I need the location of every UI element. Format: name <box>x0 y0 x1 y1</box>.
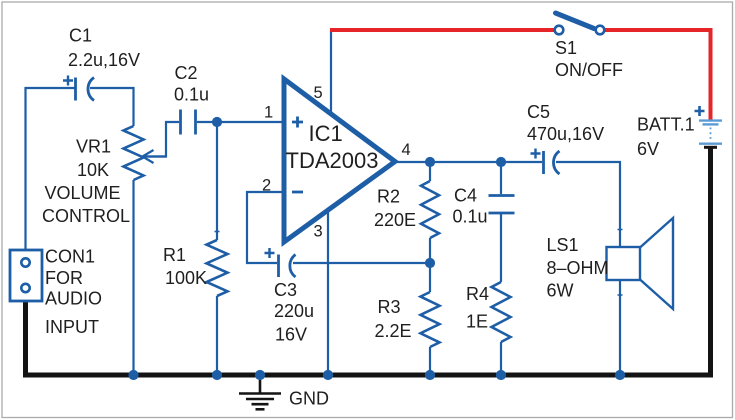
wire positive supply rail (red) switch to battery <box>605 30 711 120</box>
svg-text:GND: GND <box>289 389 329 409</box>
node output/C4 junction <box>496 157 506 167</box>
svg-text:CONTROL: CONTROL <box>42 206 130 226</box>
node VR1 ground junction <box>128 370 138 380</box>
wire C4 bottom to R4 top <box>500 214 502 282</box>
node R2/R3/C3 junction <box>425 258 435 268</box>
resistor R2 <box>421 181 439 238</box>
wire R1 top lead <box>216 122 218 240</box>
wire R4 bottom lead to ground rail <box>500 342 502 375</box>
svg-text:C5: C5 <box>527 102 550 122</box>
svg-text:1: 1 <box>264 104 273 122</box>
svg-text:TDA2003: TDA2003 <box>286 148 379 173</box>
svg-text:4: 4 <box>402 141 411 159</box>
svg-text:0.1u: 0.1u <box>453 207 488 227</box>
wire speaker bottom to ground rail <box>619 280 621 375</box>
svg-text:220u: 220u <box>274 301 314 321</box>
capacitor C2 <box>181 110 196 135</box>
wire R2 top lead <box>429 162 431 181</box>
wire pin 2 to C3 left plate <box>247 192 283 263</box>
speaker LS1 <box>607 218 674 309</box>
pin tick R1 <box>215 231 220 233</box>
svg-text:R4: R4 <box>466 284 489 304</box>
node R1 ground junction <box>212 370 222 380</box>
wire C1 left plate to CON1 top <box>26 88 75 250</box>
svg-text:IC1: IC1 <box>309 121 343 146</box>
wire R3 top lead <box>429 263 431 292</box>
svg-text:R2: R2 <box>377 187 400 207</box>
svg-text:AUDIO: AUDIO <box>45 289 102 309</box>
resistor R3 <box>421 292 440 347</box>
svg-text:0.1u: 0.1u <box>174 85 209 105</box>
wire C3 right plate to feedback node <box>293 262 430 264</box>
node pin1/R1 junction <box>212 117 222 127</box>
resistor R4 <box>492 282 511 342</box>
node R3 ground junction <box>425 370 435 380</box>
svg-text:VOLUME: VOLUME <box>45 183 121 203</box>
svg-text:6W: 6W <box>547 281 574 301</box>
svg-text:5: 5 <box>314 84 323 102</box>
wire VR1 bottom to ground rail <box>132 180 134 375</box>
svg-text:ON/OFF: ON/OFF <box>555 60 623 80</box>
svg-text:S1: S1 <box>555 38 577 58</box>
op-amp IC1 TDA2003 <box>284 79 395 242</box>
wire output pin 4 to C5 left plate <box>394 161 542 163</box>
capacitor C5 <box>531 149 560 175</box>
svg-text:6V: 6V <box>637 139 659 159</box>
wire C1 right plate to VR1 top <box>90 88 134 126</box>
wire R1 bottom lead to ground rail <box>216 296 218 375</box>
wire ground rail (black bus) <box>26 148 711 375</box>
svg-text:2.2E: 2.2E <box>375 321 412 341</box>
wire VR1 wiper to C2 left plate <box>146 122 179 157</box>
svg-text:LS1: LS1 <box>547 235 579 255</box>
svg-text:220E: 220E <box>374 210 416 230</box>
wire C5 right plate to speaker <box>556 162 620 247</box>
wire C2 right plate to pin 1 <box>197 121 283 123</box>
node speaker ground junction <box>615 370 625 380</box>
potentiometer VR1 <box>124 126 167 180</box>
svg-text:VR1: VR1 <box>76 137 111 157</box>
wire pin 3 to ground rail <box>327 210 329 375</box>
svg-text:INPUT: INPUT <box>45 317 99 337</box>
capacitor C1 <box>63 76 94 101</box>
wire pin 5 to supply rail <box>330 30 332 114</box>
svg-text:R1: R1 <box>163 245 186 265</box>
svg-text:BATT.1: BATT.1 <box>637 115 695 135</box>
wire R3 bottom lead to ground rail <box>429 347 431 375</box>
svg-text:C4: C4 <box>454 186 477 206</box>
ground symbol <box>239 375 281 409</box>
svg-text:16V: 16V <box>275 325 307 345</box>
svg-text:2.2u,16V: 2.2u,16V <box>68 50 140 70</box>
capacitor C3 <box>265 248 296 277</box>
node R4 ground junction <box>496 370 506 380</box>
wire positive supply rail (red) left of switch <box>330 28 555 32</box>
wire R2 bottom lead to node <box>429 238 431 263</box>
capacitor C4 <box>489 196 515 214</box>
svg-text:3: 3 <box>314 223 323 241</box>
svg-text:10K: 10K <box>77 160 109 180</box>
svg-text:1E: 1E <box>466 312 488 332</box>
node pin3 ground junction <box>323 370 333 380</box>
node output/R2 junction <box>425 157 435 167</box>
svg-text:2: 2 <box>262 177 271 195</box>
svg-text:FOR: FOR <box>45 268 83 288</box>
svg-text:C3: C3 <box>274 280 297 300</box>
svg-text:CON1: CON1 <box>45 247 95 267</box>
svg-text:R3: R3 <box>378 297 401 317</box>
battery BATT.1 <box>695 106 723 147</box>
wire C4 top lead <box>500 162 502 194</box>
svg-text:100K: 100K <box>165 268 207 288</box>
connector CON1 <box>10 250 42 301</box>
switch S1 <box>555 13 605 34</box>
svg-text:C1: C1 <box>69 26 92 46</box>
resistor R1 <box>207 240 228 296</box>
svg-text:8–OHM: 8–OHM <box>547 258 609 278</box>
svg-text:470u,16V: 470u,16V <box>527 124 604 144</box>
node GND symbol junction <box>255 370 265 380</box>
svg-text:C2: C2 <box>175 63 198 83</box>
